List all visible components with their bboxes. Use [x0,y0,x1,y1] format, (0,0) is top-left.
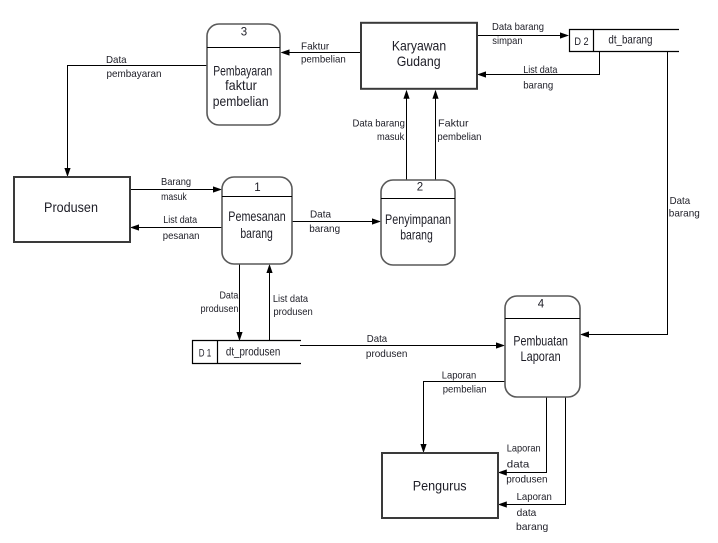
svg-text:barang: barang [523,79,553,91]
svg-text:Data: Data [310,208,331,220]
wire W4 List data barang (D2 to Karyawan Gudang) [477,52,600,78]
svg-text:List data: List data [273,293,308,305]
svg-text:pesanan: pesanan [163,230,200,242]
wire W16 Laporan data barang (process 4 to Pengurus) [498,397,566,508]
svg-text:produsen: produsen [506,473,548,485]
svg-text:2: 2 [417,182,423,194]
label Faktur pembelian (W1) [301,41,346,66]
wire W12 Data produsen (D1 to process 4) [300,342,505,348]
svg-text:Produsen: Produsen [44,199,98,215]
wire W6 Faktur pembelian (process 2 up to Karyawan Gudang) [432,90,438,180]
svg-text:simpan: simpan [492,35,522,47]
wire W8 List data pesanan (process 1 to Produsen) [130,224,222,230]
svg-text:Data: Data [670,195,691,207]
label List data produsen (W11) [273,293,313,318]
svg-text:Data: Data [106,54,127,66]
label Data barang (W14) [669,195,700,219]
svg-text:pembelian: pembelian [437,131,481,143]
svg-text:3: 3 [241,27,247,39]
label Barang masuk (W7) [161,176,191,203]
svg-text:Karyawan: Karyawan [392,38,446,54]
svg-text:Data barang: Data barang [492,21,544,33]
label Laporan pembelian (W13) [442,369,487,395]
svg-text:data: data [517,507,537,519]
svg-text:barang: barang [240,225,273,241]
data store D1 dt_produsen [193,341,302,364]
process 2 Penyimpanan barang [381,180,455,265]
process 1 Pemesanan barang [222,177,292,264]
entity Karyawan Gudang [361,23,477,89]
wire W10 Data produsen (process 1 down to D1) [236,264,242,341]
entity Produsen [14,177,130,242]
svg-text:Laporan: Laporan [442,369,477,381]
svg-text:barang: barang [669,207,700,219]
svg-text:data: data [507,459,530,471]
wire W14 Data barang (D2 down to process 4) [580,52,668,338]
svg-text:D 2: D 2 [574,36,588,48]
data store D2 dt_barang [570,30,680,52]
label Data barang simpan (W3) [492,21,544,47]
wire W13 Laporan pembelian (process 4 to Pengurus) [420,382,505,454]
svg-text:faktur: faktur [225,77,257,93]
label List data barang (W4) [523,64,557,91]
label Data pembayaran (W2) [106,54,162,80]
svg-text:List data: List data [163,214,197,226]
svg-text:Laporan: Laporan [507,443,541,455]
label Laporan data produsen (W15) [506,443,548,486]
label Data barang (W9) [309,208,340,234]
wire W1 Faktur pembelian (Karyawan Gudang to process 3) [281,49,362,55]
label List data pesanan (W8) [163,214,200,242]
wire W2 Data pembayaran (process 3 to Produsen) [64,66,207,178]
svg-text:Data barang: Data barang [353,118,406,130]
process 4 Pembuatan Laporan [505,296,580,397]
label Data produsen (W12) [366,333,408,360]
svg-text:Data: Data [367,333,387,345]
svg-text:dt_barang: dt_barang [608,33,652,47]
wire W11 List data produsen (D1 up to process 1) [266,264,272,341]
svg-text:Pemesanan: Pemesanan [228,208,285,224]
svg-text:List data: List data [523,64,557,76]
wire W7 Barang masuk (Produsen to process 1) [130,186,222,192]
label Data barang masuk (W5) [353,118,406,144]
svg-text:Pengurus: Pengurus [413,477,467,493]
svg-text:Gudang: Gudang [397,53,441,69]
svg-text:1: 1 [254,182,260,194]
entity Pengurus [382,453,498,518]
wire W5 Data barang masuk (process 2 up to Karyawan Gudang) [403,90,409,180]
svg-text:dt_produsen: dt_produsen [226,345,280,359]
svg-text:pembelian: pembelian [301,53,346,65]
svg-text:barang: barang [400,227,433,243]
svg-text:Pembuatan: Pembuatan [513,332,568,348]
svg-text:Laporan: Laporan [517,491,552,503]
svg-text:masuk: masuk [377,131,405,143]
svg-text:pembelian: pembelian [213,93,269,109]
wire W9 Data barang (process 1 to process 2) [292,218,381,224]
svg-text:produsen: produsen [201,303,239,315]
svg-text:Faktur: Faktur [301,41,330,53]
svg-text:produsen: produsen [366,348,408,360]
label Data produsen (W10) [201,290,239,315]
svg-text:barang: barang [516,521,548,533]
svg-text:pembelian: pembelian [443,383,487,395]
wire W15 Laporan data produsen (process 4 to Pengurus) [498,397,547,476]
svg-text:pembayaran: pembayaran [107,68,162,80]
svg-text:D 1: D 1 [199,348,212,360]
svg-text:Penyimpanan: Penyimpanan [385,211,451,227]
svg-text:masuk: masuk [161,191,187,203]
process 3 Pembayaran faktur pembelian [207,24,280,125]
svg-text:Barang: Barang [161,176,191,188]
label Faktur pembelian (W6) [437,118,481,144]
svg-text:produsen: produsen [273,306,313,318]
wire W3 Data barang simpan (Karyawan Gudang to D2) [477,32,569,38]
svg-text:Laporan: Laporan [521,348,561,364]
svg-text:Data: Data [220,290,239,302]
label Laporan data barang (W16) [516,491,552,533]
svg-text:barang: barang [309,223,340,235]
svg-text:4: 4 [538,299,545,311]
svg-text:Faktur: Faktur [438,118,469,130]
